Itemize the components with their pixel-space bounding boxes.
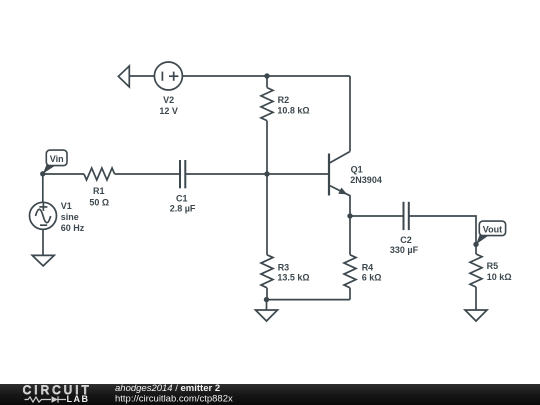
wire <box>43 173 84 175</box>
svg-text:R5: R5 <box>487 261 499 271</box>
svg-text:R3: R3 <box>278 262 290 272</box>
node dot top rail <box>264 73 269 78</box>
resistor R3 <box>261 255 273 288</box>
wire <box>349 76 351 152</box>
flag Vout <box>476 221 506 244</box>
svg-text:V1: V1 <box>61 201 72 211</box>
svg-text:C1: C1 <box>176 194 188 204</box>
resistor R5 <box>470 254 482 287</box>
wire <box>349 216 351 255</box>
svg-text:50 Ω: 50 Ω <box>89 197 109 207</box>
wire <box>42 229 44 255</box>
voltage source V2 <box>154 62 182 90</box>
wire <box>350 215 404 217</box>
wire <box>185 173 329 175</box>
svg-text:R2: R2 <box>278 95 290 105</box>
svg-text:sine: sine <box>61 212 79 222</box>
node A (base/divider) <box>264 171 269 176</box>
node dot emitter <box>347 213 352 218</box>
svg-text:V2: V2 <box>163 95 174 105</box>
wire <box>266 174 268 255</box>
svg-text:10.8 kΩ: 10.8 kΩ <box>277 105 309 115</box>
capacitor C2 <box>404 202 409 230</box>
wire <box>115 173 180 175</box>
wire <box>182 75 350 77</box>
wire <box>267 299 351 301</box>
svg-text:ahodges2014 / emitter 2: ahodges2014 / emitter 2 <box>115 383 220 394</box>
svg-text:C2: C2 <box>400 235 412 245</box>
svg-text:13.5 kΩ: 13.5 kΩ <box>277 273 309 283</box>
ground <box>465 310 487 321</box>
wire <box>266 121 268 174</box>
logo diode <box>52 396 59 402</box>
svg-text:6 kΩ: 6 kΩ <box>362 273 382 283</box>
node Vin dot <box>40 171 45 176</box>
svg-text:R4: R4 <box>362 262 374 272</box>
svg-text:60 Hz: 60 Hz <box>61 223 85 233</box>
svg-text:LAB: LAB <box>67 394 90 404</box>
capacitor C1 <box>180 160 185 188</box>
ground <box>256 310 278 321</box>
svg-text:330 µF: 330 µF <box>390 245 419 255</box>
logo resistor zigzag <box>25 396 67 402</box>
svg-text:10 kΩ: 10 kΩ <box>487 272 512 282</box>
ground (left-pointing, V2 negative terminal) <box>118 66 129 87</box>
svg-text:http://circuitlab.com/ctp882x: http://circuitlab.com/ctp882x <box>115 394 233 405</box>
resistor R2 <box>261 88 273 121</box>
node Vout dot <box>473 242 478 247</box>
wire <box>409 216 476 254</box>
flag Vin <box>43 150 67 174</box>
node dot emitter-ground rail <box>264 297 269 302</box>
svg-text:12 V: 12 V <box>159 106 178 116</box>
wire <box>475 287 477 310</box>
wire <box>349 288 351 300</box>
wire <box>42 174 44 202</box>
transistor Q1 <box>329 152 350 217</box>
svg-text:Vout: Vout <box>483 225 502 235</box>
wire <box>266 300 268 310</box>
voltage source V1 (sine) <box>30 202 57 229</box>
svg-text:Vin: Vin <box>50 154 64 164</box>
ground <box>32 255 54 266</box>
svg-text:2.8 µF: 2.8 µF <box>170 204 196 214</box>
wire <box>129 75 154 77</box>
resistor R1 <box>84 168 115 180</box>
wire <box>266 76 268 88</box>
wire <box>266 288 268 300</box>
svg-text:Q1: Q1 <box>351 164 363 174</box>
resistor R4 <box>344 255 356 288</box>
svg-text:2N3904: 2N3904 <box>350 175 382 185</box>
footer bar <box>0 383 540 405</box>
svg-text:R1: R1 <box>93 186 105 196</box>
